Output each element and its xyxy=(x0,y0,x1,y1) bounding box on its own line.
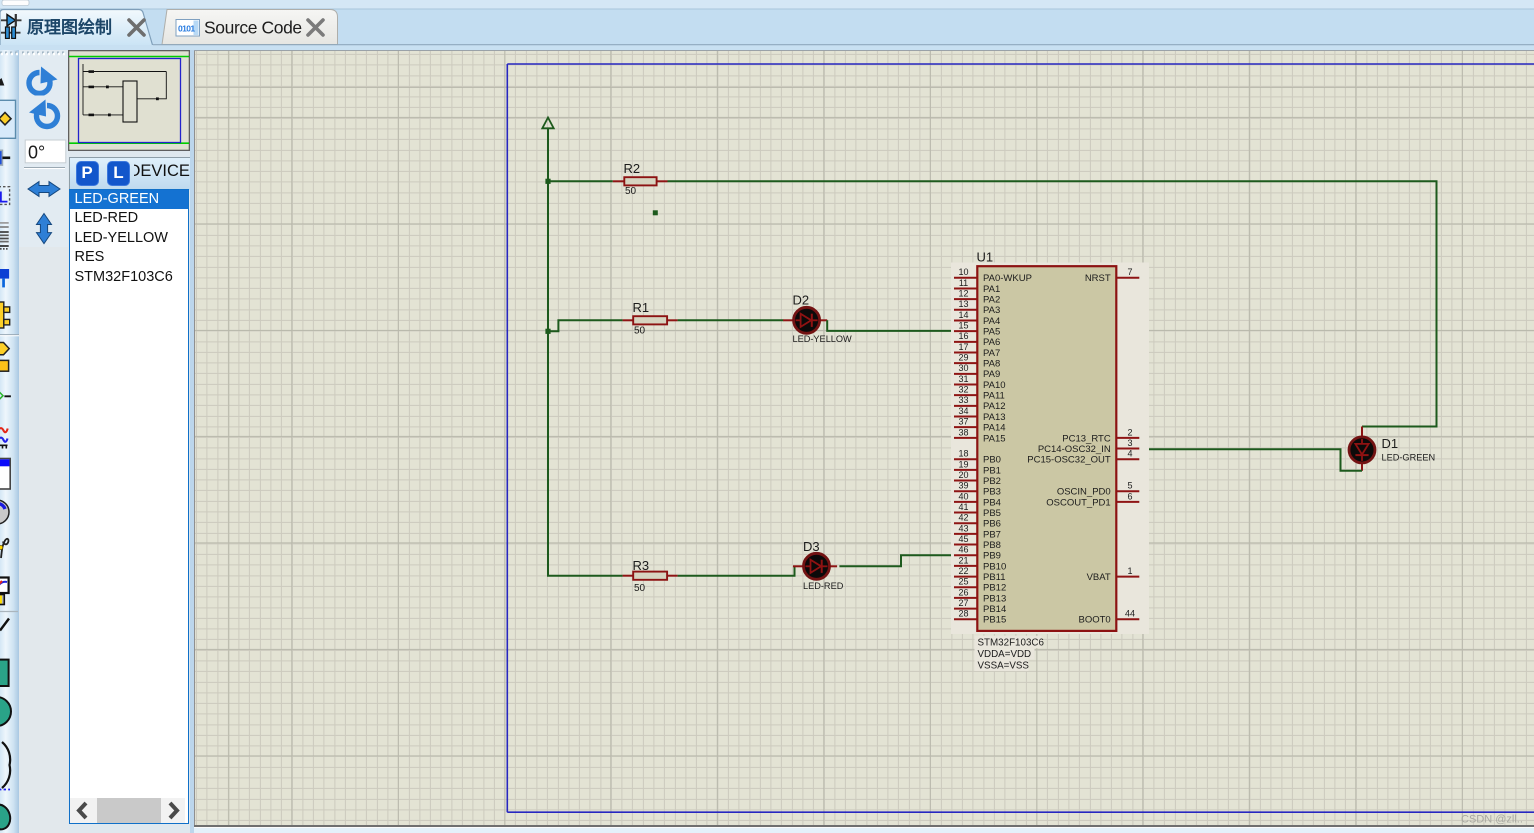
svg-text:29: 29 xyxy=(958,353,968,363)
svg-text:PA1: PA1 xyxy=(983,284,1000,295)
svg-text:6: 6 xyxy=(1127,491,1132,501)
resistor R3 xyxy=(623,572,678,580)
tab bar xyxy=(0,0,1534,50)
orientation toolbar column xyxy=(19,50,68,833)
svg-text:2: 2 xyxy=(1127,427,1132,437)
value LED-RED xyxy=(803,581,844,591)
svg-text:OSCIN_PD0: OSCIN_PD0 xyxy=(1057,487,1111,498)
svg-text:44: 44 xyxy=(1125,609,1135,619)
pin 16 PA6 xyxy=(954,331,1000,348)
svg-text:CSDN @zll..: CSDN @zll.. xyxy=(1461,813,1523,825)
svg-text:16: 16 xyxy=(958,331,968,341)
pin 41 PB5 xyxy=(954,502,1001,519)
svg-text:3: 3 xyxy=(1127,438,1132,448)
svg-text:22: 22 xyxy=(958,566,968,576)
preview pane xyxy=(68,50,190,151)
pin 2 PC13_RTC xyxy=(1062,427,1139,444)
svg-text:VSSA=VSS: VSSA=VSS xyxy=(978,661,1030,672)
svg-text:PA14: PA14 xyxy=(983,423,1006,434)
bottom edge of canvas + status strip xyxy=(194,825,1534,827)
svg-text:39: 39 xyxy=(958,481,968,491)
svg-text:PA13: PA13 xyxy=(983,412,1006,423)
svg-text:37: 37 xyxy=(958,417,968,427)
label U1 xyxy=(977,250,994,265)
svg-text:20: 20 xyxy=(958,470,968,480)
svg-text:PC15-OSC32_OUT: PC15-OSC32_OUT xyxy=(1027,455,1111,466)
LED D2 (LED-YELLOW) xyxy=(783,307,827,333)
svg-text:PA4: PA4 xyxy=(983,316,1000,327)
wire: rail to R1 (jog) xyxy=(548,320,623,331)
junction node at R1 branch xyxy=(545,329,550,334)
label D2 xyxy=(793,293,810,308)
pin 20 PB2 xyxy=(954,470,1001,487)
pin 27 PB14 xyxy=(954,598,1006,615)
pin 19 PB1 xyxy=(954,459,1001,476)
svg-text:PC14-OSC32_IN: PC14-OSC32_IN xyxy=(1038,444,1111,455)
svg-text:BOOT0: BOOT0 xyxy=(1078,615,1110,626)
resistor R2 xyxy=(613,177,668,185)
svg-text:NRST: NRST xyxy=(1085,273,1111,284)
svg-text:U1: U1 xyxy=(977,250,994,265)
svg-text:R3: R3 xyxy=(633,558,650,573)
watermark xyxy=(1461,813,1523,825)
node marker (green square) xyxy=(653,210,658,215)
svg-text:PB9: PB9 xyxy=(983,551,1001,562)
svg-text:PB15: PB15 xyxy=(983,615,1006,626)
svg-text:40: 40 xyxy=(958,491,968,501)
svg-text:PA10: PA10 xyxy=(983,380,1006,391)
svg-text:19: 19 xyxy=(958,459,968,469)
svg-text:PA11: PA11 xyxy=(983,391,1005,402)
pin 45 PB8 xyxy=(954,534,1001,551)
svg-text:PB6: PB6 xyxy=(983,519,1001,530)
wire: VCC rail from power terminal down to R3 row xyxy=(548,128,623,575)
label R1 xyxy=(633,300,650,315)
svg-text:50: 50 xyxy=(625,186,637,197)
svg-text:PB11: PB11 xyxy=(983,572,1006,583)
svg-text:PA12: PA12 xyxy=(983,401,1006,412)
label D3 xyxy=(803,539,820,554)
pin 37 PA14 xyxy=(954,417,1006,434)
svg-text:D3: D3 xyxy=(803,539,820,554)
label VDDA=VDD xyxy=(978,649,1032,660)
label R2 xyxy=(624,161,641,176)
h scrollbar xyxy=(70,798,185,823)
wire: D3 to U1 pin 46 (PB9) xyxy=(839,555,954,566)
svg-text:R1: R1 xyxy=(633,300,650,315)
svg-text:原理图绘制: 原理图绘制 xyxy=(27,17,112,37)
pin 14 PA4 xyxy=(954,310,1000,327)
svg-text:PB4: PB4 xyxy=(983,497,1001,508)
svg-text:PA15: PA15 xyxy=(983,433,1006,444)
svg-text:31: 31 xyxy=(958,374,968,384)
pin 6 OSCOUT_PD1 xyxy=(1046,491,1139,508)
svg-text:25: 25 xyxy=(958,577,968,587)
devices list xyxy=(69,189,190,824)
svg-text:LED-YELLOW: LED-YELLOW xyxy=(793,334,853,344)
svg-text:PA0-WKUP: PA0-WKUP xyxy=(983,273,1032,284)
svg-text:PB7: PB7 xyxy=(983,529,1001,540)
junction node at R2 branch xyxy=(545,179,550,184)
svg-text:30: 30 xyxy=(958,363,968,373)
pin 28 PB15 xyxy=(954,609,1006,626)
pin 17 PA7 xyxy=(954,342,1000,359)
devices header xyxy=(69,157,192,190)
pin 39 PB3 xyxy=(954,481,1001,498)
svg-text:28: 28 xyxy=(958,609,968,619)
pin 31 PA10 xyxy=(954,374,1006,391)
value 50 (R2) xyxy=(625,186,637,197)
svg-text:PB5: PB5 xyxy=(983,508,1001,519)
svg-text:0°: 0° xyxy=(28,143,45,163)
pin 33 PA12 xyxy=(954,395,1006,412)
wire: R3 to D3 (jog up) xyxy=(678,566,795,575)
svg-text:18: 18 xyxy=(958,449,968,459)
svg-text:PA8: PA8 xyxy=(983,359,1000,370)
pin 12 PA2 xyxy=(954,289,1000,306)
value 50 (R3) xyxy=(634,583,646,594)
pin 40 PB4 xyxy=(954,491,1001,508)
svg-text:STM32F103C6: STM32F103C6 xyxy=(978,637,1045,648)
svg-text:42: 42 xyxy=(958,513,968,523)
svg-text:R2: R2 xyxy=(624,161,641,176)
wire: D2 to U1 pin 15 (PA5) xyxy=(827,320,954,331)
svg-text:D1: D1 xyxy=(1382,436,1399,451)
pin 22 PB11 xyxy=(954,566,1006,583)
svg-text:50: 50 xyxy=(634,583,646,594)
svg-text:PB0: PB0 xyxy=(983,455,1001,466)
pin 5 OSCIN_PD0 xyxy=(1057,481,1139,498)
svg-text:5: 5 xyxy=(1127,481,1132,491)
label D1 xyxy=(1382,436,1399,451)
svg-text:10: 10 xyxy=(958,267,968,277)
svg-text:33: 33 xyxy=(958,395,968,405)
inactive tab: Source Code xyxy=(162,10,338,45)
svg-text:PB12: PB12 xyxy=(983,583,1006,594)
pin 30 PA9 xyxy=(954,363,1000,380)
svg-text:38: 38 xyxy=(958,427,968,437)
mcu U1 halo background xyxy=(951,263,1149,672)
splitter gap xyxy=(190,45,194,833)
svg-text:VBAT: VBAT xyxy=(1087,572,1111,583)
pin 3 PC14-OSC32_IN xyxy=(1038,438,1139,455)
pin 32 PA11 xyxy=(954,385,1005,402)
svg-text:50: 50 xyxy=(634,325,646,336)
svg-text:PA6: PA6 xyxy=(983,337,1000,348)
svg-text:21: 21 xyxy=(958,555,968,565)
pin 44 BOOT0 xyxy=(1078,609,1139,626)
svg-text:Source Code: Source Code xyxy=(204,18,302,38)
svg-text:LED-RED: LED-RED xyxy=(803,581,844,591)
value LED-GREEN xyxy=(1382,453,1436,463)
svg-text:PB10: PB10 xyxy=(983,561,1006,572)
pin 7 NRST xyxy=(1085,267,1139,284)
svg-text:PB1: PB1 xyxy=(983,465,1001,476)
pin 43 PB7 xyxy=(954,523,1001,540)
wire: rail to R2 xyxy=(548,180,613,182)
resistor R1 xyxy=(623,316,678,324)
svg-text:PA3: PA3 xyxy=(983,305,1000,316)
svg-text:15: 15 xyxy=(958,321,968,331)
pin 34 PA13 xyxy=(954,406,1006,423)
svg-text:41: 41 xyxy=(958,502,968,512)
label R3 xyxy=(633,558,650,573)
pin 11 PA1 xyxy=(954,278,1000,295)
pin 13 PA3 xyxy=(954,299,1000,316)
pin 21 PB10 xyxy=(954,555,1006,572)
value LED-YELLOW xyxy=(793,334,853,344)
svg-text:45: 45 xyxy=(958,534,968,544)
pin 46 PB9 xyxy=(954,545,1001,562)
svg-text:46: 46 xyxy=(958,545,968,555)
svg-text:4: 4 xyxy=(1127,449,1132,459)
svg-text:PB13: PB13 xyxy=(983,593,1006,604)
LED D1 (LED-GREEN) xyxy=(1349,427,1375,471)
svg-text:34: 34 xyxy=(958,406,968,416)
wire: D1 cathode to U1 pin 3 (PC14) xyxy=(1139,449,1362,471)
svg-text:27: 27 xyxy=(958,598,968,608)
svg-text:VDDA=VDD: VDDA=VDD xyxy=(978,649,1032,660)
pin 29 PA8 xyxy=(954,353,1000,370)
svg-text:32: 32 xyxy=(958,385,968,395)
wire: R2 to D1 anode (top rail right side) xyxy=(668,181,1437,426)
svg-text:L: L xyxy=(0,190,8,207)
svg-text:PA7: PA7 xyxy=(983,348,1000,359)
pin 42 PB6 xyxy=(954,513,1001,530)
side panel (preview + devices) xyxy=(68,50,190,833)
pin 15 PA5 xyxy=(954,321,1000,338)
svg-text:PB8: PB8 xyxy=(983,540,1001,551)
svg-text:13: 13 xyxy=(958,299,968,309)
pin 10 PA0-WKUP xyxy=(954,267,1032,284)
label STM32F103C6 xyxy=(978,637,1045,648)
wire: R1 to D2 xyxy=(678,319,784,321)
label VSSA=VSS xyxy=(978,661,1030,672)
svg-text:12: 12 xyxy=(958,289,968,299)
svg-text:7: 7 xyxy=(1127,267,1132,277)
svg-text:PB3: PB3 xyxy=(983,487,1001,498)
mcu U1 body xyxy=(977,266,1116,631)
svg-text:PB14: PB14 xyxy=(983,604,1006,615)
pin 18 PB0 xyxy=(954,449,1001,466)
power terminal VCC xyxy=(542,118,553,129)
svg-text:PB2: PB2 xyxy=(983,476,1001,487)
pin 4 PC15-OSC32_OUT xyxy=(1027,449,1139,466)
left icon toolbar xyxy=(0,50,19,833)
svg-text:LED-GREEN: LED-GREEN xyxy=(1382,453,1436,463)
svg-text:D2: D2 xyxy=(793,293,810,308)
svg-text:1: 1 xyxy=(1127,566,1132,576)
pin 25 PB12 xyxy=(954,577,1006,594)
svg-text:14: 14 xyxy=(958,310,968,320)
svg-text:0101: 0101 xyxy=(178,24,195,34)
svg-text:PA2: PA2 xyxy=(983,295,1000,306)
svg-text:26: 26 xyxy=(958,587,968,597)
sheet border xyxy=(507,64,1534,812)
svg-text:17: 17 xyxy=(958,342,968,352)
pin 38 PA15 xyxy=(954,427,1006,444)
svg-text:PA9: PA9 xyxy=(983,369,1000,380)
svg-text:OSCOUT_PD1: OSCOUT_PD1 xyxy=(1046,497,1110,508)
active tab xyxy=(0,10,153,46)
svg-text:PC13_RTC: PC13_RTC xyxy=(1062,433,1111,444)
svg-text:PA5: PA5 xyxy=(983,327,1000,338)
value 50 (R1) xyxy=(634,325,646,336)
pin 26 PB13 xyxy=(954,587,1006,604)
svg-text:43: 43 xyxy=(958,523,968,533)
svg-text:11: 11 xyxy=(959,278,968,288)
pin 1 VBAT xyxy=(1087,566,1140,583)
LED D3 (LED-RED) xyxy=(793,553,837,579)
